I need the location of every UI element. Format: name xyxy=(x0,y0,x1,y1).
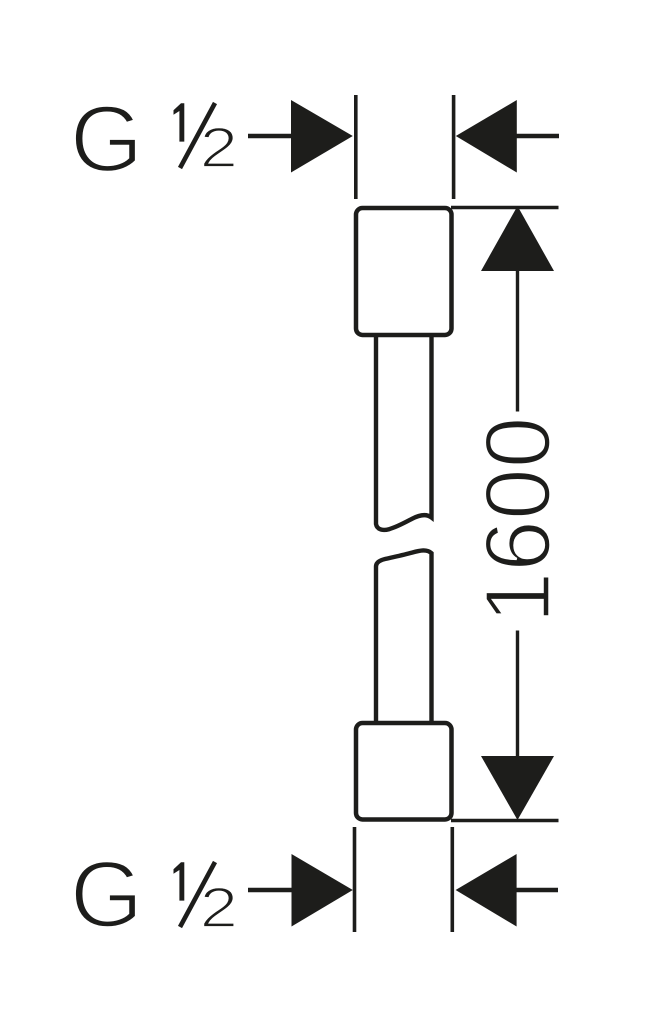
bottom extension line right xyxy=(450,827,454,932)
top extension line left xyxy=(354,95,358,199)
bottom fraction numeral 1 xyxy=(174,862,185,900)
svg-text:G: G xyxy=(70,86,143,191)
bottom dimension leader right xyxy=(516,888,558,893)
svg-text:G: G xyxy=(70,842,143,947)
1600 dimension line upper xyxy=(516,270,519,412)
lower hose connector nut xyxy=(356,723,452,820)
top fraction slash xyxy=(180,103,215,168)
top extension line right xyxy=(452,95,456,199)
1600 dimension arrow up xyxy=(481,206,554,271)
top dimension leader left xyxy=(248,134,293,139)
top fraction numeral 1 xyxy=(174,103,185,141)
top dimension leader right xyxy=(516,134,559,139)
hose upper segment xyxy=(376,320,432,530)
1600 extension line bottom xyxy=(451,819,559,822)
svg-text:2: 2 xyxy=(200,117,238,180)
1600 dimension arrow down xyxy=(481,756,554,820)
bottom dimension leader left xyxy=(248,888,293,893)
top dimension arrow left xyxy=(291,100,353,173)
svg-text:2: 2 xyxy=(200,877,238,940)
1600 dimension line lower xyxy=(516,631,519,758)
upper hose connector nut xyxy=(356,208,452,335)
bottom extension line left xyxy=(353,827,357,932)
hose lower segment xyxy=(376,550,432,735)
svg-text:1600: 1600 xyxy=(466,417,570,624)
bottom dimension arrow right xyxy=(456,854,517,927)
1600 extension line top xyxy=(451,206,559,209)
bottom fraction slash xyxy=(180,862,215,927)
top dimension arrow right xyxy=(456,100,517,173)
bottom dimension arrow left xyxy=(292,854,353,927)
